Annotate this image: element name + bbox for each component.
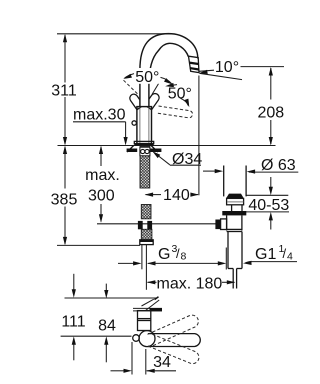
hose reference line bbox=[97, 223, 216, 225]
lever (horizontal, solid) bbox=[148, 334, 200, 347]
lever handle left position bbox=[128, 93, 143, 110]
dimension 208 (10deg line to deck) bbox=[257, 67, 284, 146]
dimension max.300 (deck to hose line) bbox=[85, 146, 120, 223]
lower hatched connector bbox=[141, 229, 152, 240]
svg-text:140: 140 bbox=[163, 187, 190, 204]
svg-text:max.: max. bbox=[85, 167, 120, 184]
svg-text:Ø 63: Ø 63 bbox=[261, 157, 296, 174]
spout tip extension line bbox=[198, 76, 200, 196]
dimension max.180 (rod to drain pipe) bbox=[147, 275, 236, 292]
svg-text:208: 208 bbox=[257, 104, 284, 121]
svg-text:/: / bbox=[176, 246, 180, 261]
dimension 40-53 (drain flange height range) bbox=[245, 177, 290, 230]
O-ring pair bbox=[141, 149, 145, 153]
lower thin pipe bbox=[232, 269, 234, 289]
svg-text:8: 8 bbox=[181, 251, 187, 263]
threaded shank below deck bbox=[140, 147, 150, 189]
svg-text:84: 84 bbox=[98, 317, 116, 334]
label max.30 with leader to deck bbox=[73, 107, 128, 146]
dimension 140 (spout reach) bbox=[145, 187, 199, 204]
gooseneck spout outer contour bbox=[140, 34, 198, 107]
dimension 385 (deck to hose flange bottom) bbox=[51, 146, 78, 246]
385 bottom reference line bbox=[57, 244, 140, 246]
pivot pin bbox=[133, 335, 140, 342]
hose end flange bbox=[140, 240, 153, 245]
base escutcheon on deck bbox=[134, 141, 153, 143]
column (side view) bbox=[138, 311, 151, 331]
deck line bbox=[58, 145, 276, 147]
label G1 1/4 (drain thread) bbox=[243, 243, 297, 265]
svg-text:40-53: 40-53 bbox=[248, 197, 289, 214]
svg-text:300: 300 bbox=[88, 188, 115, 205]
drain neck bbox=[231, 205, 233, 211]
svg-text:max.30: max.30 bbox=[73, 107, 126, 124]
lever pivot ring bbox=[139, 331, 155, 347]
svg-text:311: 311 bbox=[51, 82, 77, 99]
drain body bbox=[226, 215, 228, 230]
svg-text:max. 180: max. 180 bbox=[156, 275, 222, 292]
solid ray to right lever position (50 deg) bbox=[152, 83, 159, 95]
tee fitting at hose line bbox=[138, 221, 143, 229]
label G 3/8 (hose thread) bbox=[118, 243, 226, 266]
dimension 111 bbox=[61, 274, 85, 361]
lever handle right position (solid) bbox=[145, 92, 161, 110]
O-ring housing bbox=[140, 147, 150, 156]
svg-text:4: 4 bbox=[287, 251, 293, 263]
side pin on body bbox=[132, 121, 136, 125]
riser lines inside body bbox=[139, 107, 141, 143]
svg-text:G: G bbox=[158, 246, 170, 263]
label diameter 63 (drain plug) bbox=[203, 157, 298, 174]
angle 10 deg annotation at spout tip bbox=[199, 59, 284, 80]
body column bbox=[137, 107, 152, 144]
dashed lever lowered bbox=[148, 334, 201, 365]
flange top dark band bbox=[226, 194, 244, 199]
dashed ray to left lever position (50 deg) bbox=[124, 80, 139, 94]
flange skirt bbox=[227, 198, 244, 204]
svg-text:385: 385 bbox=[51, 192, 78, 209]
50 deg swing label (lever front arc) bbox=[123, 68, 174, 86]
gooseneck spout inner contour bbox=[149, 43, 189, 106]
tailpipe bbox=[227, 232, 229, 269]
dimension 34 bbox=[111, 342, 177, 375]
svg-text:111: 111 bbox=[61, 313, 85, 330]
riser pipe occluder bbox=[139, 84, 148, 108]
mid reference line bbox=[61, 335, 132, 337]
top extension line (spout top reference) bbox=[57, 33, 172, 35]
aerator tip bbox=[189, 56, 200, 72]
dimension 84 bbox=[98, 284, 116, 363]
svg-text:/: / bbox=[283, 246, 287, 261]
svg-text:10°: 10° bbox=[215, 59, 239, 76]
label diameter 34 with leader bbox=[151, 150, 202, 168]
mounting washer right with hatch tick bbox=[150, 149, 161, 153]
locknut dark band bbox=[222, 211, 246, 215]
dimension 311 (deck to spout top) bbox=[51, 34, 77, 146]
spout stub with break lines bbox=[133, 297, 162, 312]
drain-side extension line bbox=[225, 248, 227, 270]
svg-text:G1: G1 bbox=[255, 246, 276, 263]
top reference line bbox=[65, 297, 157, 299]
dashed lever (lowered right position) bbox=[157, 106, 193, 118]
pull rod bbox=[141, 245, 143, 270]
svg-text:34: 34 bbox=[153, 354, 171, 371]
side port bbox=[215, 220, 220, 230]
svg-text:50°: 50° bbox=[135, 69, 159, 86]
pop-up plug walls bbox=[223, 166, 225, 197]
50 deg swing label (lever side arc) bbox=[165, 83, 192, 108]
hose connector nut (hatched) bbox=[141, 205, 151, 219]
dashed lever raised bbox=[147, 313, 200, 346]
mounting washer left with hatch tick bbox=[127, 149, 138, 153]
